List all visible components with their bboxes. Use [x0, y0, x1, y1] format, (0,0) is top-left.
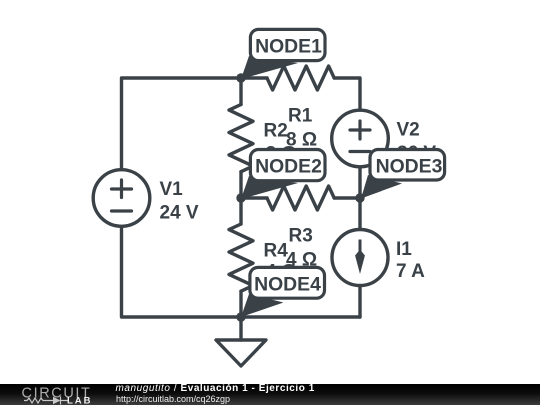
resistor R4 (vertical) — [229, 224, 253, 291]
svg-text:NODE3: NODE3 — [376, 155, 443, 177]
callout tail NODE3 — [361, 175, 402, 199]
wire R1 right lead to V2 top — [334, 78, 360, 109]
resistor R1 (horizontal, top rail) — [267, 66, 334, 90]
svg-text:R3: R3 — [289, 226, 313, 247]
ground stem — [239, 317, 242, 340]
callout box NODE4 — [250, 267, 325, 298]
logo diode triangle — [53, 397, 61, 405]
node C junction dot (node3) — [355, 193, 364, 202]
resistor R2 (vertical) — [229, 105, 253, 172]
footer bar — [0, 384, 540, 405]
wire R2 to node2 — [239, 172, 242, 198]
callout tail NODE4 — [241, 294, 284, 317]
svg-text:NODE2: NODE2 — [255, 156, 322, 178]
callout box NODE1 — [250, 29, 325, 60]
wire R4 to node4 — [239, 291, 242, 317]
wire node2 down to R4 — [239, 198, 242, 224]
node D junction dot (node4) — [236, 312, 245, 321]
ground triangle — [216, 340, 266, 366]
node B junction dot (node2) — [236, 193, 245, 202]
svg-text:R4: R4 — [264, 240, 289, 261]
wire node2 to R3 — [241, 196, 267, 199]
voltage source V1 circle — [93, 170, 150, 227]
svg-text:24 V: 24 V — [160, 202, 199, 223]
svg-text:I1: I1 — [396, 239, 412, 260]
callout box NODE2 — [250, 150, 325, 181]
svg-text:7 A: 7 A — [396, 261, 425, 282]
node A junction dot (node1) — [236, 73, 245, 82]
svg-text:V2: V2 — [397, 119, 420, 140]
V1 minus sign — [112, 209, 132, 212]
resistor R3 (horizontal, middle rail) — [267, 186, 334, 210]
svg-text:R2: R2 — [264, 120, 288, 141]
V2 minus sign — [350, 150, 370, 153]
current source I1 circle — [332, 230, 388, 286]
logo mini schematic: lead, resistor squiggle, diode — [24, 397, 68, 405]
wire top-left: top rail from left corner to node1 junction — [122, 78, 268, 168]
V1 plus sign — [112, 180, 132, 198]
wire node1 down to R2 — [239, 78, 242, 105]
footer line 2 — [116, 394, 230, 404]
I1 arrow head — [355, 250, 365, 275]
wire V2 bottom to node3 junction — [358, 169, 361, 199]
CircuitLab logo — [0, 384, 110, 405]
wire node3 to I1 top — [358, 198, 361, 228]
footer line 1 — [116, 383, 315, 394]
svg-text:R1: R1 — [288, 105, 313, 126]
voltage source V2 circle — [332, 110, 389, 167]
svg-text:V1: V1 — [160, 179, 184, 200]
callout box NODE3 — [370, 150, 445, 181]
wire bottom rail — [122, 228, 361, 317]
svg-text:NODE4: NODE4 — [254, 274, 321, 296]
V2 plus sign — [350, 121, 370, 139]
wire R3 to node3 — [334, 196, 360, 199]
callout tail NODE1 — [241, 56, 298, 79]
svg-text:NODE1: NODE1 — [255, 36, 322, 58]
callout tail NODE2 — [241, 176, 298, 199]
wire I1 bottom to bottom rail — [358, 287, 361, 317]
I1 arrow shaft — [359, 240, 362, 259]
svg-text:LAB: LAB — [67, 396, 93, 405]
